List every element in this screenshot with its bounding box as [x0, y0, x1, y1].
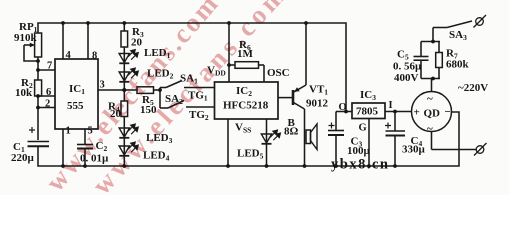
ground bus wire: [38, 112, 459, 166]
wire pin7: [38, 69, 55, 71]
wire OSC: [263, 65, 265, 82]
svg-text:SA3: SA3: [449, 29, 467, 42]
svg-text:HFC5218: HFC5218: [223, 100, 269, 112]
svg-text:+: +: [414, 107, 420, 119]
node dropper bottom: [431, 77, 435, 81]
wire pin8: [87, 23, 89, 59]
svg-text:20: 20: [110, 108, 122, 120]
node pin4 top bus: [61, 21, 65, 25]
node switch: [158, 88, 162, 92]
capacitor C1: [28, 127, 50, 146]
capacitor C2: [77, 145, 93, 167]
terminal bottom 220V: [474, 143, 487, 156]
svg-text:1: 1: [66, 126, 71, 137]
resistor R2: [35, 70, 42, 108]
svg-text:20: 20: [131, 37, 143, 49]
svg-text:LED5: LED5: [237, 148, 264, 161]
svg-text:680k: 680k: [446, 59, 470, 71]
svg-text:400V: 400V: [394, 72, 419, 84]
svg-text:0. 56µ: 0. 56µ: [393, 61, 422, 73]
node pin6: [36, 94, 40, 98]
node R3 top bus: [122, 21, 126, 25]
wire pin4: [62, 23, 64, 59]
resistor R4: [121, 90, 128, 128]
svg-text:G: G: [359, 123, 367, 134]
svg-text:555: 555: [67, 100, 84, 112]
svg-text:LED4: LED4: [143, 150, 170, 163]
svg-text:QD: QD: [424, 108, 441, 120]
node A pin3 LED R4 R5: [122, 88, 126, 92]
svg-text:9012: 9012: [306, 98, 329, 110]
svg-text:VT1: VT1: [309, 84, 328, 97]
svg-text:5: 5: [88, 126, 93, 137]
svg-text:IC2: IC2: [236, 85, 252, 98]
node LED5 ground: [265, 164, 269, 168]
node RP1 wiper: [36, 59, 40, 63]
svg-text:IC1: IC1: [69, 83, 85, 96]
switch node stub: [159, 88, 161, 109]
node G ground: [367, 164, 371, 168]
svg-text:4: 4: [66, 50, 72, 61]
svg-text:910k: 910k: [14, 32, 38, 44]
wire pin2: [38, 107, 55, 109]
wire pin6: [38, 95, 55, 97]
node VDD top bus: [227, 21, 231, 25]
node VT1 emitter top bus: [304, 21, 308, 25]
watermark diagonal A: [40, 0, 225, 197]
LED4: [119, 138, 138, 166]
wire pin3: [98, 89, 124, 91]
svg-text:TG2: TG2: [189, 109, 209, 122]
wire to C1: [37, 108, 39, 141]
switch SA3: [433, 21, 472, 28]
speaker B: [306, 124, 317, 150]
svg-text:~220V: ~220V: [458, 82, 488, 94]
svg-text:IC3: IC3: [360, 89, 376, 102]
node pin1 ground: [61, 164, 65, 168]
op-amp IC1 555 box: [55, 59, 98, 129]
svg-text:8Ω: 8Ω: [284, 126, 299, 138]
node C2 ground: [83, 164, 87, 168]
svg-text:~: ~: [427, 123, 433, 135]
node LED4 ground: [122, 164, 126, 168]
node pin7: [36, 68, 40, 72]
capacitor C3: [328, 112, 344, 167]
wire pin1: [62, 129, 64, 166]
svg-text:6: 6: [46, 87, 51, 98]
LED1: [119, 50, 138, 64]
top power bus wire: [38, 23, 346, 112]
node O pin: [344, 110, 348, 114]
LED5: [261, 119, 280, 166]
watermark diagonal B: [86, 0, 293, 200]
svg-text:7: 7: [47, 61, 52, 72]
potentiometer RP1: [24, 33, 42, 70]
C5 R7 parallel links: [421, 28, 440, 79]
svg-text:150: 150: [140, 104, 157, 116]
svg-text:OSC: OSC: [267, 67, 290, 79]
LED3: [119, 124, 138, 138]
svg-text:3: 3: [100, 80, 105, 91]
node dropper top: [431, 40, 435, 44]
switch SA1: [160, 81, 215, 88]
svg-text:ybx8.cn: ybx8.cn: [331, 157, 389, 173]
node C4 I pin: [393, 110, 397, 114]
resistor R3: [121, 23, 128, 54]
svg-text:O: O: [339, 102, 347, 113]
svg-text:100µ: 100µ: [347, 145, 371, 157]
resistor R5: [124, 87, 160, 94]
svg-text:0. 01µ: 0. 01µ: [80, 153, 109, 165]
svg-text:~: ~: [427, 93, 433, 105]
node R6 VDD: [227, 63, 231, 67]
svg-text:8: 8: [92, 51, 97, 62]
wire VSS: [227, 119, 229, 166]
capacitor C5: [414, 42, 429, 79]
IC2 HFC5218 box: [215, 82, 279, 119]
node C4 ground: [393, 164, 397, 168]
capacitor C4: [385, 112, 405, 167]
IC3 7805 box: [352, 103, 385, 119]
resistor R7: [436, 42, 443, 79]
wire pin5: [84, 129, 86, 144]
svg-text:2: 2: [45, 99, 50, 110]
wire I pin: [385, 111, 412, 113]
wire G pin: [368, 119, 370, 167]
svg-text:−: −: [445, 106, 451, 118]
switch SA2: [160, 101, 215, 109]
node speaker ground: [303, 164, 307, 168]
resistor R6: [229, 62, 264, 69]
LED2: [119, 63, 138, 90]
node C3 ground: [334, 164, 338, 168]
wire O pin: [336, 111, 352, 113]
svg-text:330µ: 330µ: [402, 144, 426, 156]
svg-text:VSS: VSS: [235, 122, 251, 135]
svg-text:220µ: 220µ: [11, 152, 35, 164]
svg-text:I: I: [389, 100, 393, 111]
rectifier QD circle: [412, 79, 477, 150]
svg-text:1M: 1M: [237, 48, 254, 60]
transistor VT1: [293, 23, 306, 166]
svg-text:7805: 7805: [356, 106, 379, 118]
node pin8 top bus: [86, 21, 90, 25]
wire IC2 output to base: [278, 97, 293, 99]
node pin2: [36, 106, 40, 110]
node VSS ground: [226, 164, 230, 168]
terminal top 220V: [474, 15, 487, 28]
wire VDD: [228, 23, 230, 82]
svg-text:10k: 10k: [15, 87, 33, 99]
